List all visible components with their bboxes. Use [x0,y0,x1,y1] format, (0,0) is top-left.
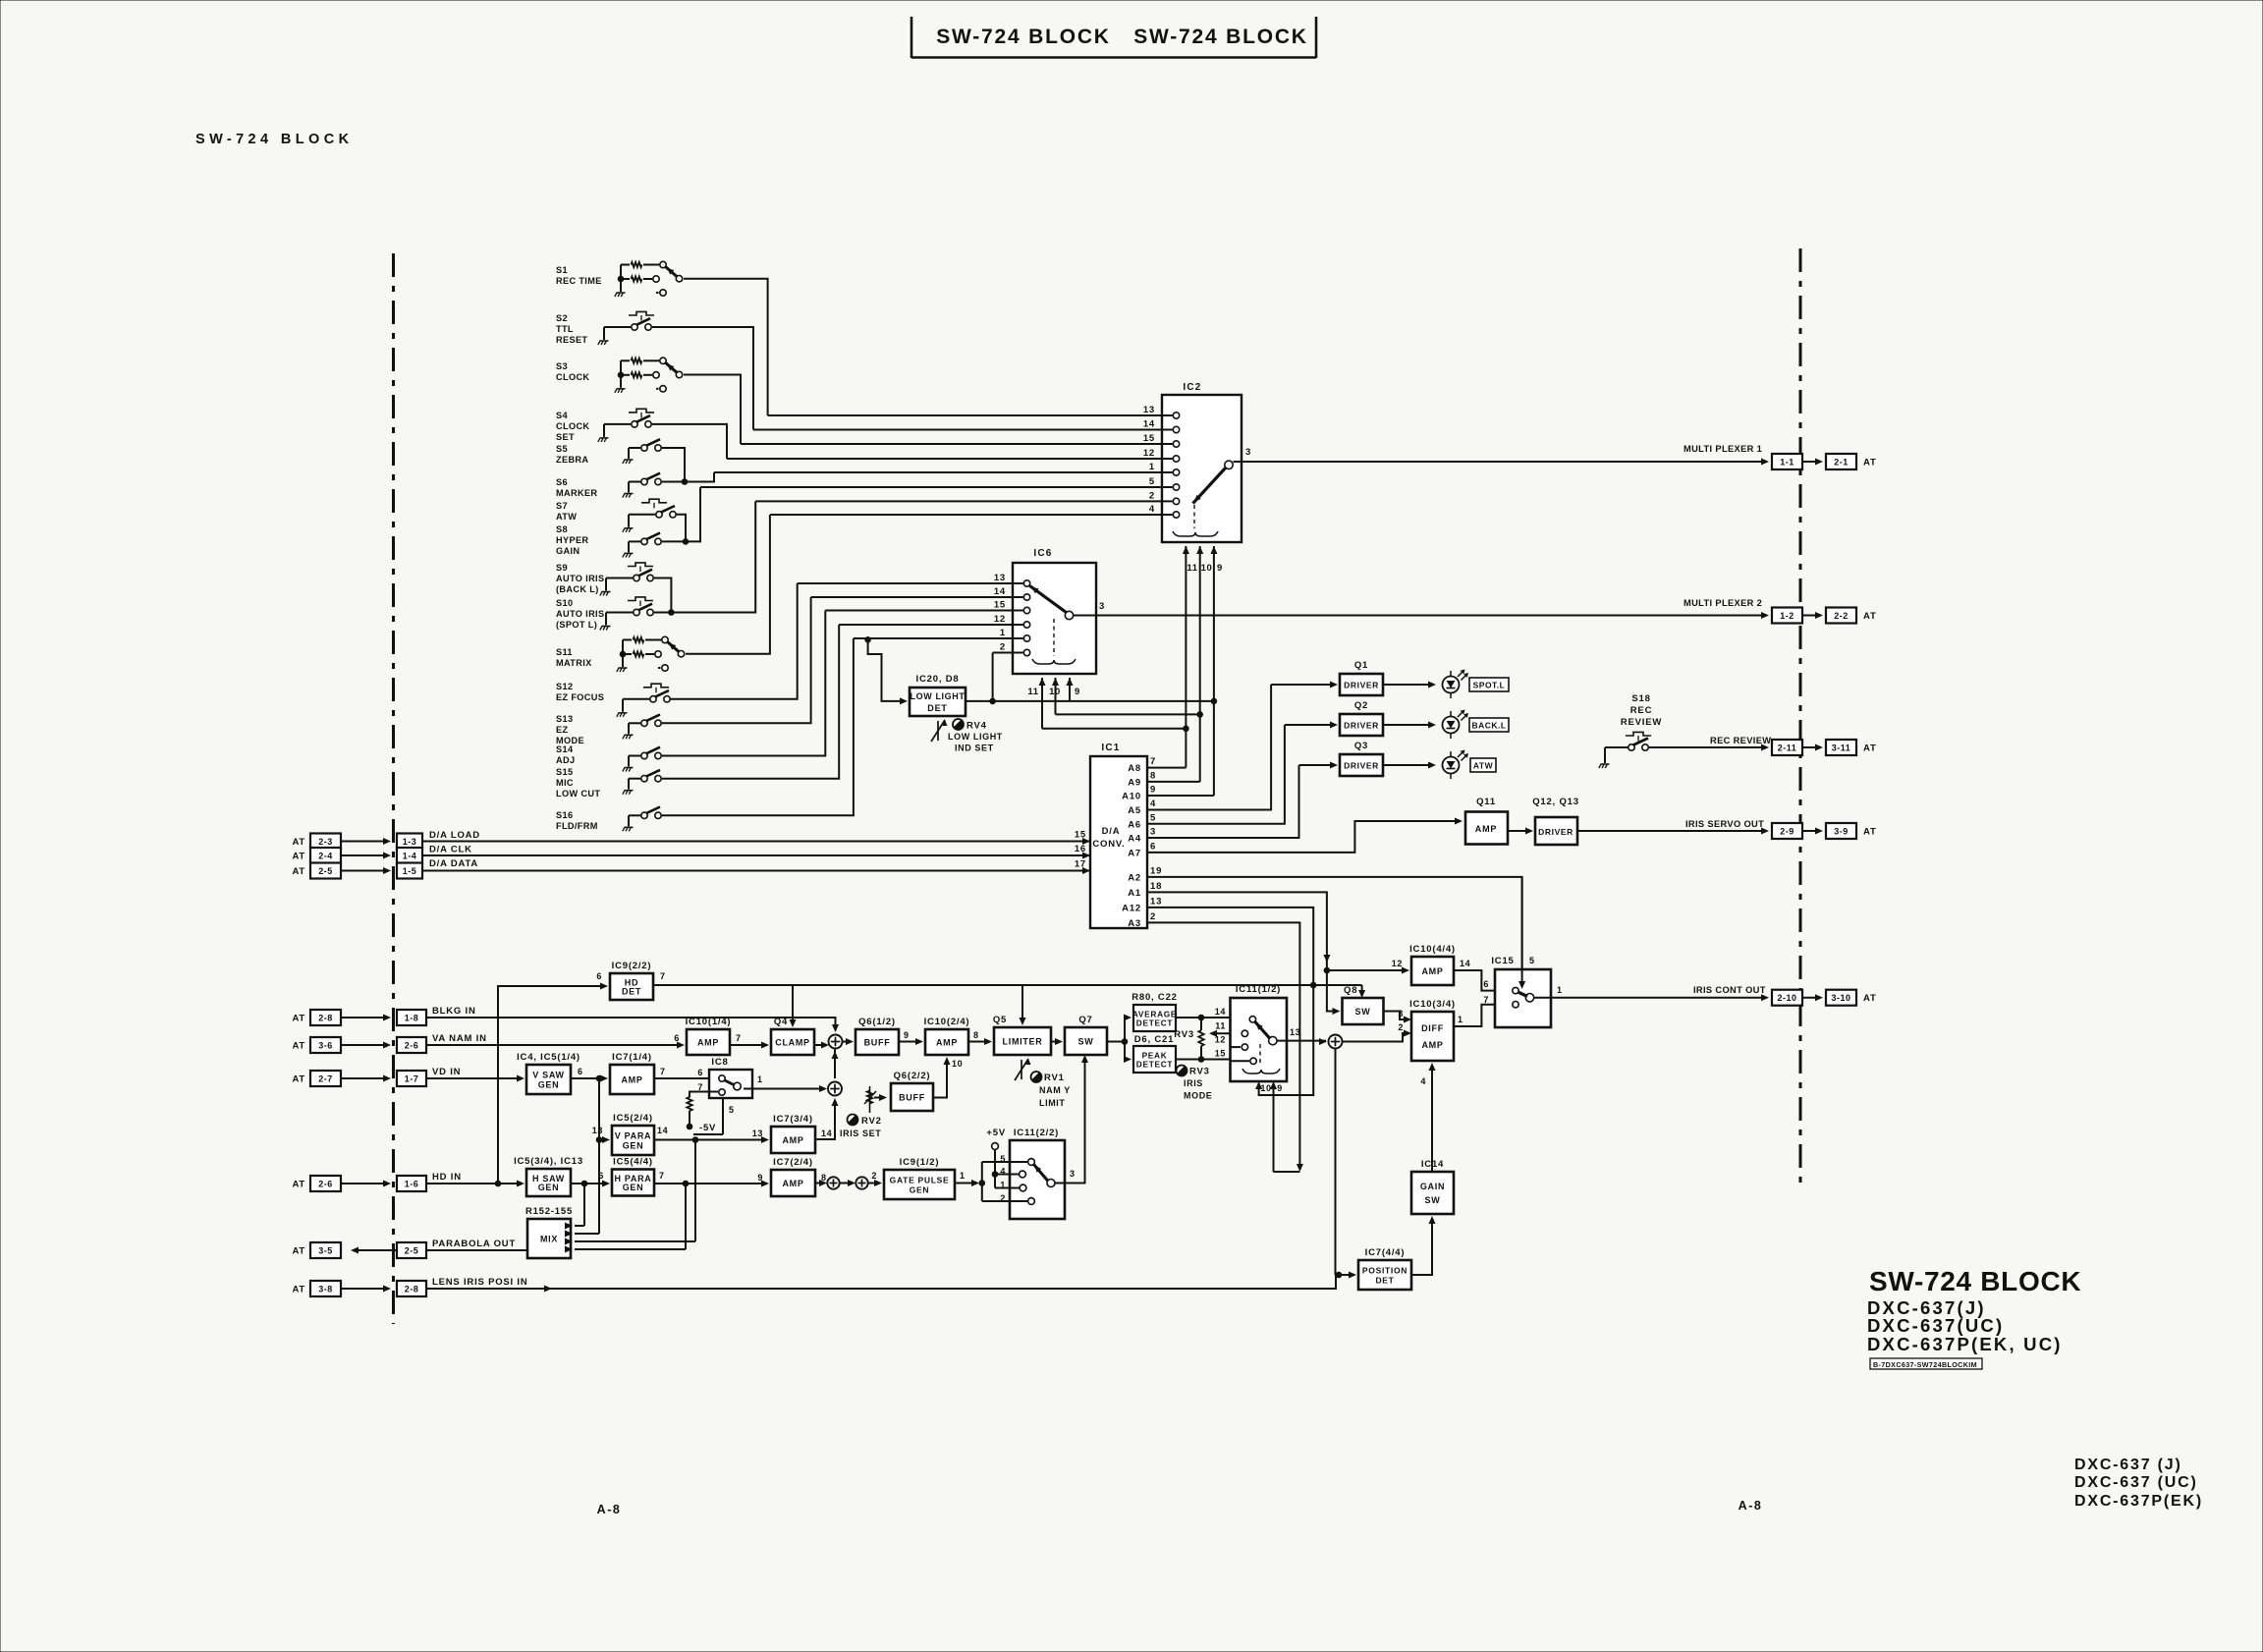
svg-text:9: 9 [1217,563,1223,574]
svg-text:AT: AT [292,1285,305,1295]
svg-text:2-6: 2-6 [405,1041,419,1051]
svg-text:15: 15 [1215,1049,1226,1059]
svg-text:3-9: 3-9 [1834,827,1849,837]
svg-text:13: 13 [1143,405,1155,415]
svg-text:DIFF: DIFF [1421,1023,1444,1033]
svg-text:S10: S10 [556,598,573,608]
svg-text:14: 14 [1460,959,1470,968]
svg-text:S11: S11 [556,647,573,657]
svg-text:6: 6 [1150,841,1156,852]
svg-text:IC8: IC8 [711,1057,728,1068]
svg-text:3-6: 3-6 [318,1041,333,1051]
svg-text:2: 2 [1149,490,1155,501]
svg-text:RV2: RV2 [861,1116,882,1127]
svg-text:A10: A10 [1122,792,1141,802]
svg-text:GAIN: GAIN [556,546,580,556]
svg-text:14: 14 [1143,419,1155,430]
svg-text:3: 3 [1398,1009,1404,1019]
svg-text:12: 12 [1392,959,1403,968]
svg-text:VD IN: VD IN [432,1067,461,1077]
svg-text:DXC-637P(EK, UC): DXC-637P(EK, UC) [1867,1334,2063,1354]
svg-text:IC7(3/4): IC7(3/4) [773,1114,813,1125]
svg-text:S4: S4 [556,411,568,420]
svg-text:11: 11 [1187,563,1197,574]
svg-text:AT: AT [292,837,305,848]
svg-text:10: 10 [1201,563,1213,574]
svg-text:14: 14 [657,1126,668,1135]
svg-text:AMP: AMP [697,1038,719,1048]
svg-text:A1: A1 [1128,888,1141,899]
svg-text:15: 15 [1075,830,1086,841]
svg-text:1: 1 [1458,1015,1463,1024]
svg-text:SW: SW [1425,1195,1441,1205]
svg-text:REC REVIEW: REC REVIEW [1710,736,1771,745]
svg-text:LIMIT: LIMIT [1039,1098,1066,1108]
svg-text:13: 13 [752,1129,763,1138]
svg-text:EZ: EZ [556,725,568,735]
svg-text:6: 6 [697,1068,703,1077]
svg-text:IRIS: IRIS [1184,1078,1203,1088]
svg-text:A12: A12 [1122,903,1141,913]
svg-text:Q12, Q13: Q12, Q13 [1532,797,1579,807]
svg-text:S14: S14 [556,744,574,754]
svg-text:RV1: RV1 [1044,1073,1065,1083]
svg-text:9: 9 [1075,687,1080,697]
svg-text:R80, C22: R80, C22 [1131,992,1178,1003]
svg-text:REVIEW: REVIEW [1621,717,1662,728]
svg-text:GATE PULSE: GATE PULSE [890,1176,950,1185]
svg-text:IC15: IC15 [1491,956,1514,966]
svg-text:SPOT.L: SPOT.L [1473,681,1506,690]
svg-text:DRIVER: DRIVER [1344,761,1379,771]
svg-text:2-5: 2-5 [318,866,333,876]
svg-text:RV4: RV4 [966,721,987,732]
svg-text:GEN: GEN [623,1183,644,1192]
svg-text:DXC-637(UC): DXC-637(UC) [1867,1315,2004,1336]
svg-text:8: 8 [973,1030,979,1040]
svg-text:13: 13 [994,573,1006,583]
svg-text:9: 9 [1150,785,1156,796]
svg-text:ATW: ATW [1473,761,1494,771]
svg-text:-5V: -5V [699,1123,716,1133]
svg-text:IC6: IC6 [1033,548,1052,559]
svg-text:7: 7 [736,1033,742,1043]
svg-text:AT: AT [292,1041,305,1052]
svg-text:Q6(2/2): Q6(2/2) [894,1071,931,1081]
svg-text:Q6(1/2): Q6(1/2) [858,1017,896,1027]
svg-text:IC20, D8: IC20, D8 [916,674,960,685]
svg-text:DXC-637 (UC): DXC-637 (UC) [2074,1474,2198,1491]
svg-text:AMP: AMP [1475,824,1497,834]
svg-text:IC10(1/4): IC10(1/4) [686,1017,732,1027]
svg-text:AT: AT [292,866,305,877]
svg-text:ADJ: ADJ [556,755,575,765]
svg-text:2-11: 2-11 [1778,743,1797,753]
svg-text:2-5: 2-5 [405,1246,419,1256]
svg-text:S16: S16 [556,810,573,820]
svg-text:CLOCK: CLOCK [556,372,589,382]
svg-text:17: 17 [1075,859,1086,870]
svg-text:1-8: 1-8 [405,1014,419,1023]
svg-text:D6, C21: D6, C21 [1134,1034,1174,1045]
svg-text:IC11(1/2): IC11(1/2) [1236,984,1281,995]
svg-text:AT: AT [1863,827,1877,838]
svg-text:AMP: AMP [936,1038,958,1048]
svg-text:GEN: GEN [910,1185,930,1195]
svg-text:FLD/FRM: FLD/FRM [556,821,598,831]
svg-text:2-9: 2-9 [1780,827,1794,837]
svg-text:MARKER: MARKER [556,488,597,498]
svg-text:10: 10 [952,1059,963,1069]
svg-text:2-7: 2-7 [318,1074,333,1084]
svg-text:LOW LIGHT: LOW LIGHT [948,732,1003,742]
svg-text:6: 6 [598,1171,604,1181]
svg-text:IRIS CONT OUT: IRIS CONT OUT [1693,985,1766,995]
svg-text:S13: S13 [556,714,573,724]
svg-text:1: 1 [757,1074,763,1084]
svg-text:14: 14 [821,1129,832,1138]
svg-text:GEN: GEN [538,1080,560,1090]
svg-text:11: 11 [1027,687,1038,697]
svg-text:A8: A8 [1128,763,1141,774]
svg-text:CLOCK: CLOCK [556,421,589,431]
svg-text:ATW: ATW [556,512,577,522]
svg-text:2-10: 2-10 [1777,993,1796,1003]
svg-text:V PARA: V PARA [615,1131,652,1141]
svg-text:REC: REC [1630,705,1652,716]
svg-text:IC11(2/2): IC11(2/2) [1014,1128,1059,1138]
svg-text:Q1: Q1 [1354,660,1368,671]
svg-text:A6: A6 [1128,819,1141,830]
svg-text:MULTI PLEXER 2: MULTI PLEXER 2 [1683,598,1762,608]
svg-text:IC10(2/4): IC10(2/4) [924,1017,970,1027]
svg-text:CONV.: CONV. [1092,839,1125,850]
svg-text:9: 9 [1277,1083,1283,1093]
svg-text:3: 3 [1150,827,1156,838]
svg-text:AMP: AMP [1421,1040,1443,1050]
svg-text:7: 7 [1150,756,1156,767]
svg-text:16: 16 [1075,844,1086,854]
svg-text:(BACK L): (BACK L) [556,584,599,594]
svg-text:A3: A3 [1128,918,1141,929]
svg-text:3-11: 3-11 [1832,743,1851,753]
svg-text:IC7(2/4): IC7(2/4) [773,1157,813,1168]
svg-text:3-8: 3-8 [318,1285,333,1294]
svg-text:DRIVER: DRIVER [1344,721,1379,731]
svg-text:2: 2 [1000,1193,1006,1203]
svg-text:7: 7 [660,1067,666,1076]
svg-text:S2: S2 [556,313,568,323]
svg-text:PARABOLA OUT: PARABOLA OUT [432,1239,516,1249]
svg-text:DET: DET [1375,1276,1394,1286]
svg-text:IC7(4/4): IC7(4/4) [1365,1247,1406,1258]
svg-text:D/A LOAD: D/A LOAD [429,830,480,841]
svg-text:A5: A5 [1128,805,1141,816]
svg-text:SW: SW [1078,1037,1094,1047]
svg-text:AT: AT [1863,611,1877,622]
svg-text:IC7(1/4): IC7(1/4) [612,1052,652,1063]
svg-text:13: 13 [1150,896,1162,907]
svg-text:BUFF: BUFF [899,1093,925,1103]
svg-text:IRIS SET: IRIS SET [840,1129,881,1138]
svg-text:15: 15 [1143,433,1155,444]
svg-text:S3: S3 [556,361,568,371]
svg-text:SW-724 BLOCK: SW-724 BLOCK [1869,1266,2081,1296]
svg-text:2-2: 2-2 [1834,611,1849,621]
svg-text:BLKG IN: BLKG IN [432,1006,476,1017]
svg-text:A4: A4 [1128,834,1141,845]
svg-text:1: 1 [1557,985,1563,995]
svg-text:1-4: 1-4 [403,852,417,861]
svg-text:MIX: MIX [540,1235,558,1244]
svg-text:5: 5 [729,1105,735,1115]
svg-text:R152-155: R152-155 [525,1206,573,1217]
svg-text:AMP: AMP [782,1179,803,1188]
svg-text:DXC-637P(EK): DXC-637P(EK) [2074,1493,2203,1510]
svg-text:SW-724 BLOCK: SW-724 BLOCK [936,26,1111,48]
svg-text:3: 3 [1070,1169,1076,1179]
svg-text:DETECT: DETECT [1136,1019,1173,1028]
svg-text:3: 3 [1099,601,1105,612]
svg-text:D/A CLK: D/A CLK [429,845,472,855]
svg-text:2: 2 [1150,911,1156,922]
svg-text:AT: AT [292,1246,305,1257]
svg-text:GEN: GEN [538,1183,560,1192]
svg-text:5: 5 [1000,1154,1006,1164]
svg-text:Q7: Q7 [1078,1015,1092,1025]
svg-text:2-1: 2-1 [1834,458,1849,468]
svg-text:S12: S12 [556,682,573,691]
svg-text:Q8: Q8 [1344,985,1357,996]
svg-text:IC4, IC5(1/4): IC4, IC5(1/4) [517,1052,580,1063]
svg-text:1: 1 [1149,462,1155,472]
svg-text:AT: AT [1863,743,1877,754]
svg-text:+5V: +5V [986,1128,1006,1138]
svg-text:MATRIX: MATRIX [556,658,592,668]
svg-text:AT: AT [1863,458,1877,468]
svg-text:A9: A9 [1128,777,1141,788]
svg-text:AUTO IRIS: AUTO IRIS [556,574,604,583]
svg-text:6: 6 [578,1067,583,1076]
svg-text:MIC: MIC [556,778,574,788]
svg-text:SW-724 BLOCK: SW-724 BLOCK [195,132,353,147]
svg-text:BACK.L: BACK.L [1471,721,1506,731]
svg-text:RESET: RESET [556,335,587,345]
svg-text:6: 6 [596,971,602,981]
svg-text:IC1: IC1 [1101,743,1120,753]
svg-text:1-7: 1-7 [405,1074,419,1084]
svg-text:9: 9 [904,1030,910,1040]
svg-text:DRIVER: DRIVER [1538,827,1573,837]
svg-text:4: 4 [1149,504,1155,515]
svg-text:3-10: 3-10 [1831,993,1850,1003]
svg-text:2-8: 2-8 [318,1014,333,1023]
svg-text:V SAW: V SAW [532,1071,565,1080]
svg-text:5: 5 [1529,956,1535,965]
svg-text:15: 15 [994,600,1006,611]
svg-text:IC5(2/4): IC5(2/4) [613,1113,653,1124]
svg-text:DETECT: DETECT [1136,1060,1173,1070]
svg-text:7: 7 [1483,995,1489,1005]
svg-text:7: 7 [659,1171,665,1181]
svg-text:S5: S5 [556,444,568,454]
svg-text:2-3: 2-3 [318,837,333,847]
svg-text:BUFF: BUFF [864,1038,891,1048]
svg-text:IC10(3/4): IC10(3/4) [1409,999,1456,1010]
svg-text:AT: AT [292,852,305,862]
svg-text:AT: AT [1863,993,1877,1004]
svg-text:POSITION: POSITION [1362,1266,1407,1276]
svg-text:ZEBRA: ZEBRA [556,455,588,465]
svg-text:IC10(4/4): IC10(4/4) [1409,944,1456,955]
svg-text:12: 12 [1143,448,1155,459]
svg-text:VA NAM IN: VA NAM IN [432,1033,487,1044]
svg-text:5: 5 [1149,476,1155,487]
svg-text:Q11: Q11 [1476,797,1496,807]
svg-text:12: 12 [1215,1035,1226,1045]
svg-text:1: 1 [1000,1181,1006,1190]
svg-text:HYPER: HYPER [556,535,588,545]
svg-text:2: 2 [1398,1022,1404,1032]
svg-text:2-4: 2-4 [318,852,333,861]
svg-text:1: 1 [1000,628,1006,638]
svg-text:D/A DATA: D/A DATA [429,858,478,869]
svg-text:Q4: Q4 [774,1017,788,1027]
svg-text:D/A: D/A [1102,826,1121,837]
svg-text:RV3: RV3 [1174,1029,1194,1040]
svg-text:DET: DET [927,703,947,713]
svg-text:14: 14 [994,586,1006,597]
svg-text:IC9(2/2): IC9(2/2) [612,961,652,971]
svg-text:Q3: Q3 [1354,741,1368,751]
svg-text:1-1: 1-1 [1780,458,1794,468]
svg-text:SW: SW [1355,1007,1371,1017]
svg-text:19: 19 [1150,865,1162,876]
svg-text:AMP: AMP [1421,966,1443,976]
svg-text:B-7DXC637-SW724BLOCKIM: B-7DXC637-SW724BLOCKIM [1873,1360,1977,1369]
svg-text:S18: S18 [1631,693,1650,704]
svg-text:AUTO IRIS: AUTO IRIS [556,609,604,619]
svg-text:IC5(3/4), IC13: IC5(3/4), IC13 [514,1156,583,1167]
svg-text:LENS IRIS POSI IN: LENS IRIS POSI IN [432,1277,528,1288]
svg-text:CLAMP: CLAMP [775,1038,810,1048]
svg-text:4: 4 [1000,1167,1006,1177]
svg-text:1-6: 1-6 [405,1180,419,1189]
svg-text:A-8: A-8 [597,1503,622,1516]
svg-text:1-2: 1-2 [1780,611,1794,621]
svg-text:S7: S7 [556,501,568,511]
svg-text:S9: S9 [556,563,568,573]
svg-text:A-8: A-8 [1739,1499,1763,1513]
svg-text:MULTI PLEXER 1: MULTI PLEXER 1 [1683,444,1762,454]
svg-text:1: 1 [960,1171,966,1181]
svg-text:IRIS SERVO OUT: IRIS SERVO OUT [1685,819,1764,829]
svg-text:S15: S15 [556,767,573,777]
svg-text:2: 2 [1000,642,1006,653]
svg-text:RV3: RV3 [1189,1067,1210,1077]
svg-text:S8: S8 [556,524,568,534]
svg-text:TTL: TTL [556,324,574,334]
svg-text:9: 9 [757,1173,763,1183]
svg-text:HD IN: HD IN [432,1172,462,1183]
svg-text:GAIN: GAIN [1420,1182,1445,1191]
svg-text:SW-724 BLOCK: SW-724 BLOCK [1133,26,1308,48]
svg-text:3: 3 [1245,447,1251,458]
svg-text:13: 13 [1290,1027,1300,1037]
svg-text:EZ FOCUS: EZ FOCUS [556,692,604,702]
svg-text:AT: AT [292,1014,305,1024]
svg-text:1-3: 1-3 [403,837,417,847]
svg-text:MODE: MODE [1184,1091,1212,1101]
svg-text:IC5(4/4): IC5(4/4) [613,1157,653,1168]
svg-text:2-6: 2-6 [318,1180,333,1189]
svg-text:13: 13 [592,1126,603,1135]
svg-text:LIMITER: LIMITER [1003,1037,1043,1047]
svg-text:(SPOT L): (SPOT L) [556,620,597,630]
svg-text:A2: A2 [1128,872,1141,883]
svg-text:NAM Y: NAM Y [1039,1085,1071,1095]
svg-text:6: 6 [1483,979,1489,989]
svg-text:18: 18 [1150,881,1162,892]
svg-text:SET: SET [556,432,575,442]
svg-text:AMP: AMP [782,1135,803,1145]
svg-text:IND SET: IND SET [955,743,994,753]
svg-text:4: 4 [1420,1076,1426,1086]
svg-text:S6: S6 [556,477,568,487]
svg-text:8: 8 [1150,770,1156,781]
svg-text:DRIVER: DRIVER [1344,681,1379,690]
svg-text:A7: A7 [1128,848,1141,858]
svg-text:DET: DET [622,987,641,997]
svg-text:Q2: Q2 [1354,700,1368,711]
svg-text:2-8: 2-8 [405,1285,419,1294]
svg-text:GEN: GEN [623,1141,644,1151]
svg-text:DXC-637 (J): DXC-637 (J) [2074,1457,2182,1473]
svg-text:Q5: Q5 [993,1015,1007,1025]
svg-text:5: 5 [1150,812,1156,823]
svg-text:7: 7 [660,971,666,981]
svg-text:AT: AT [292,1074,305,1085]
svg-text:IC2: IC2 [1183,382,1201,393]
svg-text:LOW LIGHT: LOW LIGHT [911,691,966,701]
svg-text:2: 2 [871,1171,877,1181]
svg-text:S1: S1 [556,265,568,275]
svg-text:REC TIME: REC TIME [556,276,602,286]
svg-text:10: 10 [1260,1083,1271,1093]
svg-text:IC9(1/2): IC9(1/2) [900,1157,940,1168]
svg-text:4: 4 [1150,798,1156,809]
svg-text:AT: AT [292,1180,305,1190]
svg-text:6: 6 [674,1033,680,1043]
svg-text:AMP: AMP [621,1075,642,1085]
svg-text:LOW CUT: LOW CUT [556,789,600,798]
svg-text:14: 14 [1215,1007,1226,1017]
svg-text:11: 11 [1215,1021,1226,1031]
svg-text:1-5: 1-5 [403,866,417,876]
svg-text:3-5: 3-5 [318,1246,333,1256]
svg-text:12: 12 [994,614,1006,625]
